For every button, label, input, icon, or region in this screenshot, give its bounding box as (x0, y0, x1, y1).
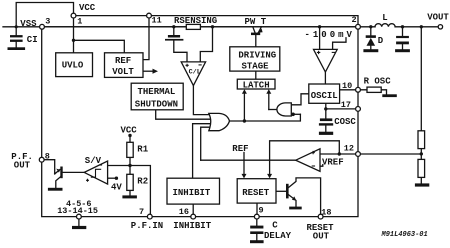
svg-text:1: 1 (77, 16, 82, 26)
svg-text:17: 17 (341, 100, 351, 110)
svg-text:-100mV: -100mV (305, 30, 355, 40)
svg-text:7: 7 (139, 207, 144, 217)
svg-text:VCC: VCC (121, 125, 138, 135)
svg-text:9: 9 (259, 206, 264, 216)
svg-text:S/V: S/V (85, 156, 102, 166)
svg-text:CI: CI (27, 35, 38, 45)
svg-text:18: 18 (321, 208, 331, 218)
svg-text:OSCIL: OSCIL (311, 91, 338, 101)
svg-text:VSS: VSS (20, 19, 37, 29)
svg-text:4V: 4V (111, 182, 122, 192)
svg-text:3: 3 (45, 16, 50, 26)
svg-text:STAGE: STAGE (242, 62, 270, 72)
svg-text:PW T: PW T (245, 17, 267, 27)
svg-text:M91L4963-01: M91L4963-01 (381, 231, 428, 239)
svg-text:10: 10 (342, 81, 352, 91)
svg-text:VOUT: VOUT (427, 12, 449, 22)
svg-text:LATCH: LATCH (243, 80, 270, 90)
svg-text:VREF: VREF (322, 157, 344, 167)
svg-text:COSC: COSC (334, 117, 356, 127)
svg-text:INHIBIT: INHIBIT (173, 221, 211, 231)
svg-text:L: L (382, 13, 387, 23)
svg-text:R2: R2 (137, 177, 148, 187)
svg-text:11: 11 (152, 16, 162, 26)
svg-text:VCC: VCC (79, 3, 96, 13)
svg-text:RSENSING: RSENSING (174, 16, 217, 26)
svg-text:C/L: C/L (189, 69, 201, 77)
svg-text:REF: REF (232, 144, 248, 154)
svg-text:8: 8 (45, 151, 50, 161)
svg-text:R1: R1 (137, 145, 148, 155)
svg-text:OUT: OUT (313, 232, 330, 242)
svg-text:2: 2 (352, 15, 357, 25)
svg-text:13-14-15: 13-14-15 (57, 206, 98, 216)
svg-text:R OSC: R OSC (364, 77, 392, 87)
svg-text:SHUTDOWN: SHUTDOWN (135, 99, 178, 109)
svg-text:REF: REF (115, 56, 131, 66)
svg-text:16: 16 (179, 207, 189, 217)
svg-text:12: 12 (344, 143, 354, 153)
svg-text:OUT: OUT (14, 160, 31, 170)
svg-text:VOLT: VOLT (112, 67, 134, 77)
svg-text:INHIBIT: INHIBIT (173, 188, 211, 198)
svg-text:THERMAL: THERMAL (138, 87, 176, 97)
svg-text:P.F.IN: P.F.IN (131, 221, 163, 231)
svg-text:RESET: RESET (242, 188, 270, 198)
svg-text:DELAY: DELAY (264, 231, 292, 241)
svg-text:DRIVING: DRIVING (238, 50, 276, 60)
svg-text:D: D (378, 36, 384, 46)
svg-text:UVLO: UVLO (62, 61, 84, 71)
svg-text:C: C (272, 220, 278, 230)
